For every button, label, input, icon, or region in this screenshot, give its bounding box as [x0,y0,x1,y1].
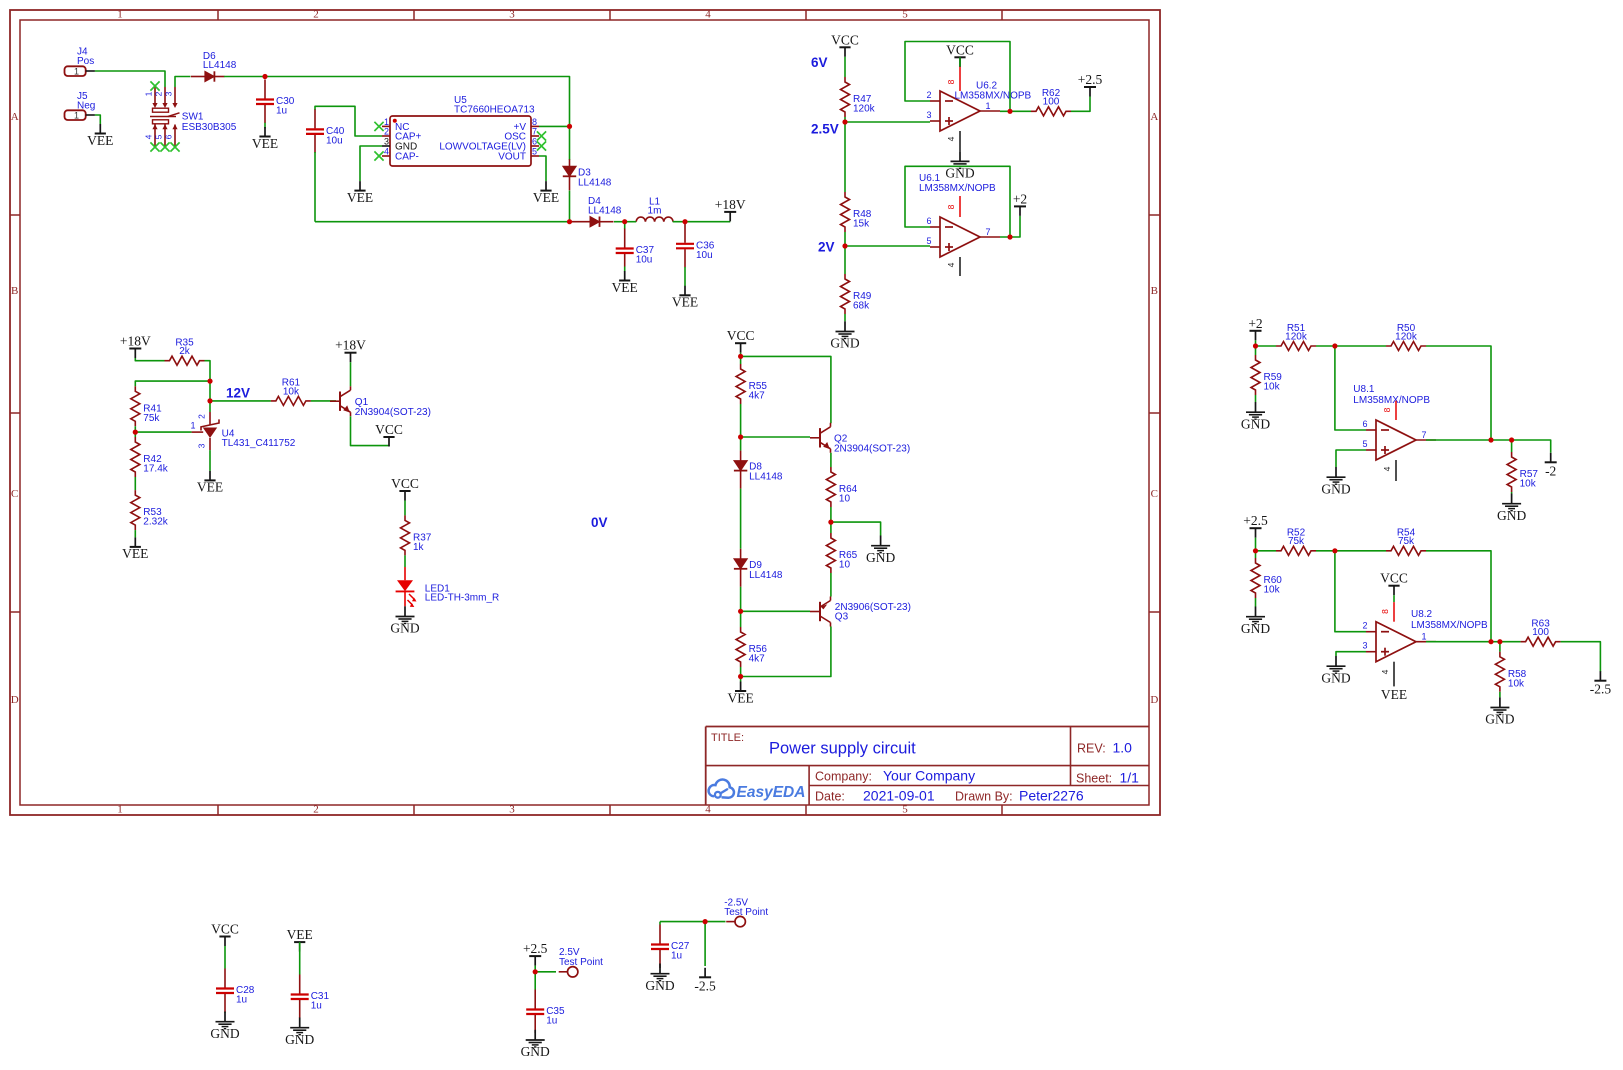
svg-text:1: 1 [74,67,79,77]
wire R37 to LED1 [404,555,406,567]
resistor R50 [1386,323,1426,351]
capacitor C31 [291,975,330,1019]
svg-text:100: 100 [1532,627,1549,638]
svg-text:4: 4 [705,804,711,816]
wire D8 to D9 [740,489,742,549]
svg-text:LL4148: LL4148 [749,570,783,581]
junction bus / D4 [567,219,572,224]
wire node to R60 [1255,551,1257,558]
ground (R59) [1241,402,1270,431]
svg-text:VEE: VEE [122,546,148,561]
wire U5 +V to node [539,125,570,127]
svg-text:VEE: VEE [1381,687,1407,702]
wire U5 VOUT to VEE [539,156,546,181]
wire R51 to node [1316,345,1335,347]
svg-text:VEE: VEE [727,690,753,705]
net flag +2 (R51) [1248,316,1262,341]
svg-text:VEE: VEE [287,927,313,942]
svg-text:TITLE:: TITLE: [711,732,744,744]
wire +2.5 to node [534,966,536,972]
svg-text:Company:: Company: [815,769,872,783]
net flag +18V (output) [715,197,746,222]
svg-text:1u: 1u [311,1001,322,1012]
svg-text:1: 1 [1421,632,1426,642]
svg-text:12V: 12V [226,386,250,401]
wire node to test point [535,971,556,973]
svg-text:GND: GND [1321,670,1350,685]
power symbol VEE (C30) [252,127,278,151]
junction R35/R41 node [207,379,212,384]
wire L1 to +18V [673,221,731,223]
LED LED1 [396,567,500,607]
svg-text:8: 8 [946,79,956,84]
svg-text:VEE: VEE [252,136,278,151]
wire C37 to VEE [624,267,626,272]
diode D9 [734,549,783,587]
ground (C31) [285,1018,314,1047]
svg-text:4: 4 [946,136,956,141]
svg-text:TC7660HEOA713: TC7660HEOA713 [454,105,535,116]
wire to C36 [684,222,686,224]
wire node to Q3 base [741,610,810,612]
transistor Q3 2N3906 [810,597,831,627]
net flag -2.5 (R63) [1590,671,1612,697]
wire J4 to SW1 pin2 [95,71,165,87]
svg-text:4: 4 [144,134,154,139]
resistor R61 [271,378,311,406]
diode D4 [570,196,622,227]
svg-text:U8.1: U8.1 [1353,384,1375,395]
svg-text:5: 5 [926,236,931,246]
svg-text:Peter2276: Peter2276 [1019,787,1084,803]
ground (push-pull mid) [866,536,895,565]
net flag +2.5 (R62) [1078,72,1103,97]
power symbol VEE (U4) [197,471,223,495]
transistor Q3 labels [835,602,911,623]
svg-text:Sheet:: Sheet: [1076,772,1112,786]
resistor R64 [826,467,857,507]
svg-text:10u: 10u [326,135,343,146]
junction test point -2.5V [703,919,708,924]
svg-text:C: C [1151,488,1158,500]
svg-text:2: 2 [1362,621,1367,631]
svg-text:8: 8 [1380,609,1390,614]
svg-text:Neg: Neg [77,101,95,112]
svg-text:Drawn By:: Drawn By: [955,789,1013,803]
svg-text:100: 100 [1043,97,1060,108]
wire U8.1 output [1426,439,1491,441]
svg-text:LL4148: LL4148 [203,60,237,71]
diode D6 [191,51,237,82]
svg-text:3: 3 [197,443,207,448]
svg-text:+18V: +18V [715,197,746,212]
wire D6 to U5 +V node [224,77,570,127]
svg-text:4: 4 [1380,669,1390,674]
wire C37 node to L1 [625,221,637,223]
wire C27 to test point node [660,921,705,923]
no-connect U5 pin4 [374,151,383,160]
svg-text:1: 1 [985,101,990,111]
svg-text:5: 5 [902,9,908,21]
test point labels -2.5V [724,898,768,919]
wire R64 to mid node [830,507,832,522]
svg-text:7: 7 [985,227,990,237]
svg-text:VCC: VCC [831,32,859,47]
svg-text:2k: 2k [179,346,191,357]
svg-text:4: 4 [946,262,956,267]
svg-text:Your Company: Your Company [883,767,975,783]
op-amp U8.2 power pin 8 [1380,602,1394,622]
transistor Q1 labels [355,397,431,418]
IC U5 TC7660HEOA713 [382,95,539,166]
wire Q1 emitter to VCC [351,416,390,446]
svg-text:6: 6 [532,137,537,147]
op-amp U8.2 labels [1411,609,1488,631]
svg-text:VEE: VEE [197,480,223,495]
wire R63 to -2.5 flag [1561,642,1601,672]
wire VCC to node [740,353,742,357]
wire node to D8 [740,437,742,451]
svg-text:CAP-: CAP- [395,152,419,163]
svg-text:0V: 0V [591,515,608,530]
wire U8.2 -in to node [1335,551,1366,632]
capacitor C28 [216,969,255,1013]
net flag +18V (R35) [120,334,151,359]
wire VCC node to Q2 collector [741,356,831,423]
svg-text:1: 1 [144,91,154,96]
svg-text:LM358MX/NOPB: LM358MX/NOPB [1353,395,1430,406]
wire U5 GND pin to VEE [360,146,382,181]
power symbol VCC (R37) [391,476,419,501]
svg-text:8: 8 [946,204,956,209]
svg-text:2: 2 [926,90,931,100]
svg-text:A: A [1150,111,1158,123]
no-connect SW1 pin4 [150,142,159,151]
wire node to R50 [1335,345,1386,347]
wire R65 to Q3 emitter [830,573,832,597]
wire mid node to R65 [830,522,832,533]
resistor R55 [736,364,767,404]
svg-text:10k: 10k [283,386,300,397]
wire node to R57 [1511,440,1513,452]
no-connect U5 pin1 [374,122,383,131]
svg-text:5: 5 [532,147,537,157]
wire R55 to Q2 base node [740,404,742,437]
svg-text:LL4148: LL4148 [749,472,783,483]
op-amp U6.1 labels [919,173,996,194]
svg-text:2: 2 [313,804,319,816]
wire U8.2 +in to GND [1336,652,1366,656]
resistor R37 [401,515,432,555]
resistor R51 [1276,323,1316,351]
svg-text:75k: 75k [1288,536,1305,547]
svg-text:VCC: VCC [1380,571,1408,586]
resistor R41 [131,386,162,426]
svg-text:10: 10 [839,494,851,505]
wire node to R51 [1256,345,1277,347]
svg-text:+18V: +18V [335,338,366,353]
svg-text:2N3904(SOT-23): 2N3904(SOT-23) [355,407,431,418]
connector J5 [65,91,96,121]
op-amp U8.1 power pin 4 [1382,460,1396,481]
svg-text:Test Point: Test Point [724,907,768,918]
svg-text:LM358MX/NOPB: LM358MX/NOPB [1411,620,1488,631]
wire R53 to VEE [134,530,136,537]
op-amp U6.2 power pin 8 [946,67,960,92]
transistor Q2 labels [834,434,910,455]
svg-text:GND: GND [1241,621,1270,636]
wire node to R63 [1500,641,1521,643]
op-amp U8.1 power pin 8 [1382,401,1396,420]
op-amp U8.1 [1362,419,1436,460]
svg-text:REV:: REV: [1077,742,1106,756]
svg-text:68k: 68k [853,301,870,312]
svg-text:B: B [1151,285,1158,297]
svg-text:2: 2 [197,414,207,419]
svg-text:5: 5 [1362,439,1367,449]
svg-text:GND: GND [945,166,974,181]
svg-text:GND: GND [645,978,674,993]
op-amp U8.1 labels [1353,384,1430,406]
ground (U8.1 +in) [1321,467,1350,496]
junction Q3 base node [738,609,743,614]
wire R41 to ref node [134,426,136,432]
wire C30 to VEE [264,123,266,129]
svg-text:5: 5 [902,804,908,816]
wire VCC to R37 [404,501,406,516]
power symbol VCC (R55) [727,328,755,353]
svg-text:3: 3 [509,9,515,21]
svg-text:D: D [11,694,19,706]
ground (LED1) [390,606,419,635]
svg-text:1u: 1u [276,106,287,117]
power symbol VEE (C31) top [287,927,313,952]
wire node to R52 [1256,550,1277,552]
power symbol VCC (U8.2) [1380,571,1408,596]
ground (R58) [1485,697,1514,726]
svg-text:1: 1 [384,117,389,127]
svg-text:GND: GND [866,550,895,565]
power symbol VEE (R56) [727,682,753,706]
junction R57 node [1509,437,1514,442]
svg-text:U8.2: U8.2 [1411,609,1433,620]
junction Q2 base node [738,434,743,439]
wire R50 to output node [1426,346,1491,440]
ground (C28) [210,1012,239,1041]
svg-text:10k: 10k [1508,678,1525,689]
svg-text:5: 5 [154,134,164,139]
svg-text:4: 4 [384,147,389,157]
resistor R35 [165,338,205,366]
wire node to R59 [1255,346,1257,355]
svg-text:10k: 10k [1264,382,1281,393]
power symbol VCC (Q1) [375,422,403,447]
svg-text:GND: GND [830,336,859,351]
svg-text:GND: GND [1497,508,1526,523]
wire node to R41 [135,381,210,386]
wire node to R54 [1335,550,1386,552]
resistor R54 [1386,528,1426,556]
capacitor C37 [616,229,655,267]
svg-text:10k: 10k [1264,585,1281,596]
svg-text:2: 2 [384,127,389,137]
wire R35 to node [205,361,211,381]
test point TP -2.5V [726,916,745,926]
capacitor C35 [526,990,565,1034]
wire R61 to Q1 base [311,400,336,402]
wire R42 to R53 [134,477,136,490]
svg-text:LL4148: LL4148 [578,177,612,188]
wire 2.5V node to R48 [844,122,846,192]
power symbol VEE (C37) [612,271,638,295]
wire 2V node to R49 [844,246,846,274]
ground (U6.2 pin4) [945,151,974,180]
wire ref node to R42 [134,432,136,437]
wire ref node to U4 pin1 [135,431,191,433]
no-connect SW1 pin6 [170,142,179,151]
wire node to Q3 collector [741,627,831,677]
wire 12V to R61 [210,400,271,402]
svg-text:A: A [11,111,19,123]
net flag +2.5 (C35) [523,941,548,966]
svg-text:D: D [1150,694,1158,706]
svg-text:3: 3 [164,91,174,96]
no-connect SW1 pin1 [150,81,159,90]
junction +2 node [1253,343,1258,348]
capacitor C27 [651,925,690,969]
wire D4 to C37 node [614,221,625,223]
svg-text:4k7: 4k7 [749,654,766,665]
wire U8.1 -in to node [1335,346,1366,430]
junction C37 [622,219,627,224]
wire node to -2.5 flag [704,922,706,966]
junction U5 +V / D3 [567,124,572,129]
op-amp U6.1 power pin 8 [946,196,960,217]
power symbol VCC (C28) [211,922,239,947]
op-amp U8.2 [1362,621,1436,662]
junction at C30 [262,74,267,79]
svg-text:120k: 120k [1395,331,1418,342]
transistor Q2 2N3904 [810,423,831,453]
wire +18V to R35 [135,358,164,361]
op-amp U6.2 power pin 4 [946,131,960,151]
wire VCC to U6.2 pin8 [959,57,961,66]
svg-text:GND: GND [285,1032,314,1047]
svg-text:+2.5: +2.5 [523,941,548,956]
junction 2.5V node [842,119,847,124]
svg-text:ESB30B305: ESB30B305 [182,122,237,133]
wire C40 to bottom bus [314,152,316,222]
resistor R48 [841,192,872,232]
junction 2V node [842,243,847,248]
wire J5 to VEE [95,115,100,124]
wire D9 to Q3 base node [740,587,742,612]
wire to R57 node [1491,439,1512,441]
wire U6.1 output to +2 [1000,216,1020,237]
svg-text:4: 4 [705,9,711,21]
junction C36 [682,219,687,224]
svg-text:VCC: VCC [211,922,239,937]
capacitor C36 [676,224,715,267]
svg-text:+2.5: +2.5 [1243,513,1268,528]
wire +18V to Q1 collector [350,362,352,386]
inductor L1 [636,197,673,222]
resistor R57 [1507,452,1538,492]
svg-text:3: 3 [509,804,515,816]
EasyEDA logo [709,780,806,801]
svg-text:10k: 10k [1520,479,1537,490]
title block [706,727,1149,806]
wire R47 to 2.5V node [844,117,846,122]
sheet border frame [10,9,1160,816]
svg-text:VEE: VEE [347,190,373,205]
wire VCC node to R55 [740,356,742,364]
svg-text:2: 2 [154,91,164,96]
svg-text:7: 7 [532,127,537,137]
power symbol VCC (U6.2) [946,42,974,67]
junction R56/Q3 node [738,674,743,679]
svg-text:Date:: Date: [815,789,845,803]
svg-text:1: 1 [190,421,195,431]
svg-text:1u: 1u [546,1016,557,1027]
svg-text:GND: GND [210,1026,239,1041]
wire node to R56 [740,611,742,627]
wire 12V node to U4 pin2 [209,401,211,412]
svg-text:GND: GND [390,621,419,636]
junction U6.2 output [1007,109,1012,114]
svg-text:4k7: 4k7 [749,391,766,402]
wire to -2 flag [1512,440,1551,453]
op-amp U6.1 [926,216,1000,257]
wire VCC to C28 [224,946,226,969]
svg-text:+2: +2 [1248,316,1262,331]
svg-text:GND: GND [1241,416,1270,431]
ground (U8.2 +in) [1321,656,1350,685]
svg-text:3: 3 [1362,641,1367,651]
wire R52 to node [1316,550,1335,552]
wire 2V to U6.1 +in [845,245,930,247]
wire R56 to VEE node [740,667,742,677]
wire +2.5 to node [1255,538,1257,551]
wire down to C27 [659,922,661,925]
wire U4 pin3 to VEE [209,450,211,471]
power symbol VCC (R47) [831,32,859,57]
resistor R52 [1276,528,1316,556]
wire bottom bus [315,221,570,223]
diode D3 [563,159,612,190]
resistor R60 [1251,558,1282,598]
svg-text:1k: 1k [413,542,425,553]
wire R49 to GND [844,314,846,321]
svg-text:4: 4 [1382,466,1392,471]
wire U8.1 +in to GND [1336,450,1366,467]
wire mid node to GND [831,522,881,535]
junction R52/R54 node [1332,548,1337,553]
wire node to 12V node [209,381,211,401]
svg-text:10u: 10u [636,255,653,266]
shunt reference U4 TL431 [190,412,295,450]
ground (R57) [1497,494,1526,523]
power symbol VEE (U5 VOUT) [533,181,559,205]
svg-text:3: 3 [384,137,389,147]
svg-text:10: 10 [839,560,851,571]
net flag +18V (Q1) [335,338,366,363]
wire U6.2 feedback loop [905,42,1010,112]
svg-text:LM358MX/NOPB: LM358MX/NOPB [919,183,996,194]
svg-text:1.0: 1.0 [1113,740,1133,756]
svg-text:8: 8 [532,117,537,127]
resistor R58 [1495,652,1526,692]
